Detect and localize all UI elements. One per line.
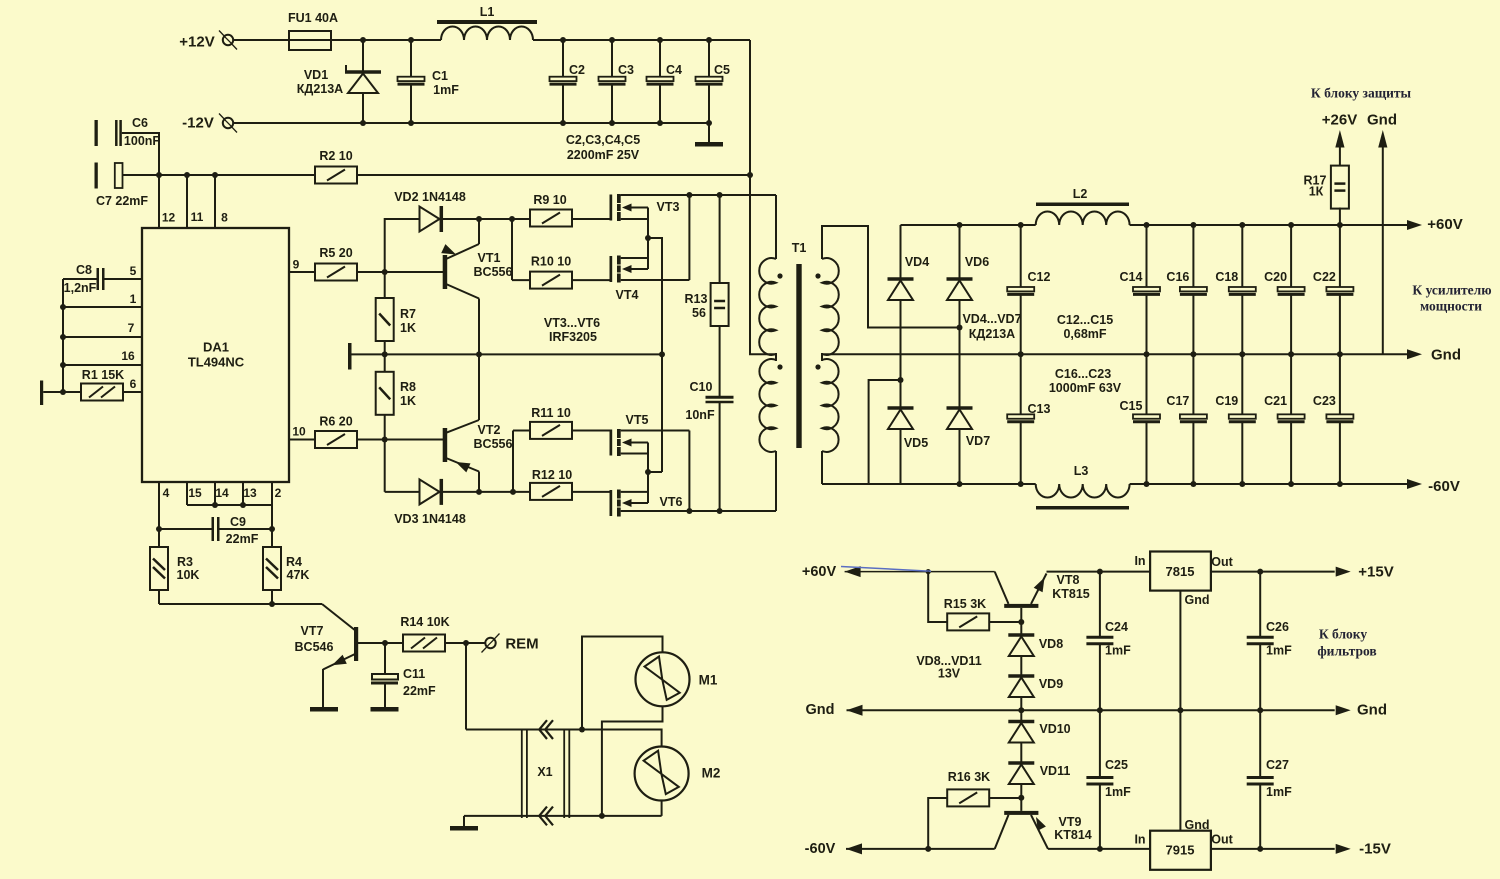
wire VT5 drain down [688, 431, 690, 512]
capacitor C4 [657, 37, 663, 43]
svg-text:13: 13 [243, 486, 257, 500]
svg-text:R5 20: R5 20 [319, 246, 352, 260]
svg-text:6: 6 [130, 377, 137, 391]
wire left bus [62, 279, 64, 392]
svg-text:C8: C8 [76, 263, 92, 277]
svg-text:2: 2 [275, 486, 282, 500]
node M1 junction [579, 727, 585, 733]
wire [233, 39, 289, 41]
svg-text:1mF: 1mF [1266, 644, 1292, 658]
svg-text:КД213А: КД213А [297, 82, 343, 96]
svg-text:VT1: VT1 [478, 251, 501, 265]
capacitor C18 [1239, 222, 1245, 228]
wire VT9 emitter row [1048, 848, 1150, 850]
wire pin 15 [186, 482, 188, 505]
connector X1 boundary lines [521, 730, 523, 819]
wire pin 7 [60, 334, 66, 340]
wire VT4 source to bus [647, 238, 649, 269]
svg-text:VT9: VT9 [1059, 815, 1082, 829]
svg-text:R7: R7 [400, 307, 416, 321]
svg-text:T1: T1 [792, 241, 807, 255]
svg-text:C12...C15: C12...C15 [1057, 313, 1113, 327]
svg-text:22mF: 22mF [403, 684, 436, 698]
svg-text:VT3: VT3 [657, 200, 680, 214]
transistor Q2 VT2 BC556 [443, 428, 448, 462]
svg-text:VD5: VD5 [904, 436, 928, 450]
svg-text:9: 9 [293, 258, 300, 272]
node -12V input terminal [219, 114, 237, 133]
svg-text:C17: C17 [1166, 394, 1189, 408]
wire drain rail bottom [621, 510, 776, 512]
svg-text:R6 20: R6 20 [319, 415, 352, 429]
svg-text:R10 10: R10 10 [531, 255, 571, 269]
resistor R5 20 [289, 271, 315, 273]
svg-text:C16: C16 [1166, 270, 1189, 284]
svg-text:C10: C10 [690, 380, 713, 394]
svg-text:7915: 7915 [1166, 843, 1195, 858]
ground at R1 [40, 381, 43, 406]
capacitor C2 [560, 37, 566, 43]
svg-text:+60V: +60V [1427, 216, 1462, 233]
svg-text:7: 7 [128, 321, 135, 335]
resistor R15 3K [928, 572, 947, 622]
resistor R2 10 [315, 167, 357, 184]
wire blue artifact [841, 567, 931, 572]
wire pin bus [187, 504, 272, 506]
wire secondary bottom lead [821, 451, 823, 484]
wire primary joint [775, 353, 777, 361]
svg-text:L3: L3 [1074, 464, 1089, 478]
node VD3 junctions [476, 489, 482, 495]
svg-text:VT3...VT6: VT3...VT6 [544, 316, 600, 330]
svg-text:1K: 1K [400, 321, 416, 335]
diode VD11 [1008, 761, 1034, 765]
svg-text:R12 10: R12 10 [532, 468, 572, 482]
wire pin 2 [271, 482, 273, 505]
svg-text:R11 10: R11 10 [531, 406, 571, 420]
wire Gnd rail [822, 353, 1409, 355]
svg-text:C25: C25 [1105, 758, 1128, 772]
svg-text:C24: C24 [1105, 620, 1128, 634]
wire secondary joint [821, 353, 823, 361]
capacitor C22 [1337, 222, 1343, 228]
svg-text:C19: C19 [1215, 394, 1238, 408]
capacitor C23 [1339, 354, 1341, 414]
svg-text:BC556: BC556 [474, 437, 513, 451]
resistor R12 10 [530, 483, 572, 500]
transistor VT4 IRF3205 [610, 256, 613, 282]
svg-text:+26V: +26V [1322, 112, 1357, 129]
node VD6 anode junction [957, 325, 963, 331]
wire pin 1 [60, 304, 66, 310]
svg-text:R14 10K: R14 10K [400, 615, 449, 629]
svg-text:+60V: +60V [802, 564, 837, 580]
svg-text:IRF3205: IRF3205 [549, 330, 597, 344]
capacitor C6 100nF [95, 120, 98, 146]
svg-text:100nF: 100nF [124, 134, 160, 148]
connector X1 chevron bottom [539, 807, 547, 826]
node VD4 VD5 junction [898, 377, 904, 383]
svg-text:VD3 1N4148: VD3 1N4148 [394, 512, 466, 526]
wire drain rail top [621, 194, 776, 196]
svg-text:VT6: VT6 [660, 495, 683, 509]
diode VD9 [1008, 674, 1034, 678]
capacitor C15 [1146, 354, 1148, 414]
svg-text:C7 22mF: C7 22mF [96, 194, 148, 208]
svg-text:C26: C26 [1266, 620, 1289, 634]
svg-text:-60V: -60V [805, 841, 836, 857]
svg-text:VT8: VT8 [1057, 573, 1080, 587]
wire pin 13 [242, 482, 244, 505]
svg-text:R8: R8 [400, 380, 416, 394]
node junction R2 rail [747, 172, 753, 178]
diode VD5 KD213A [900, 380, 902, 408]
ground at C11 [371, 707, 399, 712]
node +12V input terminal [219, 31, 237, 50]
transformer T1 primary top winding [759, 258, 776, 355]
svg-text:12: 12 [162, 211, 176, 225]
svg-text:C9: C9 [230, 515, 246, 529]
svg-text:10nF: 10nF [685, 408, 715, 422]
wire REM down [465, 643, 467, 730]
svg-text:К блоку: К блоку [1319, 627, 1367, 642]
svg-text:1: 1 [130, 292, 137, 306]
svg-text:R2 10: R2 10 [319, 149, 352, 163]
svg-text:C18: C18 [1215, 270, 1238, 284]
svg-text:C14: C14 [1120, 270, 1143, 284]
svg-text:C13: C13 [1028, 402, 1051, 416]
svg-text:Gnd: Gnd [1185, 818, 1210, 832]
resistor R10 10 [511, 219, 513, 280]
svg-text:1mF: 1mF [1266, 785, 1292, 799]
node REM junction [463, 640, 469, 646]
capacitor C9 22mF [156, 526, 162, 532]
wire midpoint down [648, 238, 662, 472]
capacitor C8 1,2nF [97, 268, 100, 290]
svg-text:1,2nF: 1,2nF [64, 281, 97, 295]
svg-text:R16 3K: R16 3K [948, 770, 990, 784]
wire -60V rail [822, 483, 1036, 485]
svg-text:M1: M1 [699, 673, 718, 688]
svg-text:DA1: DA1 [203, 340, 229, 355]
svg-text:7815: 7815 [1166, 564, 1195, 579]
svg-text:К усилителю: К усилителю [1412, 283, 1491, 298]
motor M1 [636, 652, 690, 706]
svg-text:C22: C22 [1313, 270, 1336, 284]
svg-text:C16...C23: C16...C23 [1055, 367, 1111, 381]
svg-text:In: In [1134, 833, 1145, 847]
svg-text:-60V: -60V [1428, 478, 1460, 495]
resistor R16 3K [928, 798, 947, 849]
svg-text:Gnd: Gnd [1357, 702, 1387, 719]
svg-text:REM: REM [505, 636, 538, 653]
resistor R14 10K [385, 642, 403, 644]
motor M2 [635, 747, 689, 801]
svg-text:11: 11 [191, 210, 204, 224]
svg-text:-12V: -12V [182, 115, 214, 132]
diode VD6 KD213A [957, 222, 963, 228]
resistor R3 10K [158, 529, 160, 547]
wire pin 12 [158, 175, 160, 228]
svg-text:C11: C11 [403, 667, 425, 681]
svg-text:C21: C21 [1264, 394, 1287, 408]
wire +12V rail [533, 39, 750, 41]
wire X1 top row [466, 729, 582, 731]
diode VD8 [1008, 633, 1034, 637]
capacitor C13 [1020, 354, 1022, 414]
svg-text:мощности: мощности [1420, 299, 1482, 314]
svg-text:L2: L2 [1073, 187, 1088, 201]
wire base feed [159, 603, 322, 605]
node REM terminal [466, 642, 485, 644]
svg-text:Gnd: Gnd [1431, 347, 1461, 364]
capacitor C11 22mF [384, 643, 386, 674]
capacitor C1 1mF [408, 37, 414, 43]
svg-text:Gnd: Gnd [1185, 593, 1210, 607]
svg-text:VT2: VT2 [478, 423, 501, 437]
svg-text:M2: M2 [702, 766, 721, 781]
transistor Q7 VT7 BC546 [354, 627, 358, 661]
svg-text:TL494NC: TL494NC [188, 355, 245, 370]
svg-text:VT4: VT4 [616, 288, 639, 302]
svg-text:VD7: VD7 [966, 434, 990, 448]
svg-text:56: 56 [692, 306, 706, 320]
transformer T1 secondary bottom winding [822, 359, 839, 452]
ground rail bar [348, 343, 352, 370]
svg-text:L1: L1 [480, 5, 495, 19]
svg-text:Out: Out [1211, 833, 1233, 847]
inductor L3 [1036, 506, 1129, 510]
wire pin 4 [158, 482, 160, 529]
svg-text:КД213А: КД213А [969, 327, 1015, 341]
node R7 rail junction [382, 351, 388, 357]
wire Gnd row [847, 705, 863, 716]
op-amp U1 DA1 TL494NC chip body [142, 228, 289, 482]
wire +12V feed to center tap [750, 175, 776, 354]
svg-text:In: In [1134, 554, 1145, 568]
node pin8 junction [212, 172, 218, 178]
svg-text:R4: R4 [286, 555, 302, 569]
svg-text:Gnd: Gnd [806, 702, 835, 718]
svg-text:VD4...VD7: VD4...VD7 [962, 312, 1021, 326]
svg-text:15: 15 [188, 486, 202, 500]
resistor R1 15K [60, 389, 66, 395]
svg-text:VD4: VD4 [905, 255, 929, 269]
wire secondary top lead [822, 226, 960, 328]
capacitor C21 [1290, 354, 1292, 414]
diode VD1 KD213A [362, 40, 364, 72]
wire R2 to +12 feed [357, 174, 750, 176]
svg-text:47K: 47K [287, 568, 310, 582]
resistor R4 47K [271, 529, 273, 547]
svg-text:VT5: VT5 [626, 413, 649, 427]
svg-text:1mF: 1mF [1105, 785, 1131, 799]
capacitor C27 1mF [1259, 710, 1261, 776]
svg-text:VD11: VD11 [1040, 764, 1071, 778]
svg-text:10: 10 [292, 425, 306, 439]
capacitor C7 22mF [95, 163, 98, 189]
wire +60V tap row [845, 566, 861, 577]
ground at X1 [463, 816, 465, 826]
svg-text:C27: C27 [1266, 758, 1289, 772]
svg-text:-15V: -15V [1359, 841, 1391, 858]
capacitor C24 1mF [1099, 572, 1101, 636]
svg-text:C15: C15 [1120, 399, 1143, 413]
transistor Q9 VT9 KT814 [1020, 798, 1022, 811]
wire secondary bottom jog [869, 380, 901, 484]
diode VD3 1N4148 [385, 491, 420, 493]
node pin12 junction [156, 172, 162, 178]
transformer T1 secondary top winding [822, 258, 839, 355]
svg-text:VD10: VD10 [1039, 722, 1070, 736]
wire VT3 source bus [647, 208, 649, 239]
capacitor C10 10nF [719, 326, 721, 396]
svg-text:К блоку защиты: К блоку защиты [1311, 86, 1412, 101]
capacitor C12 [1018, 222, 1024, 228]
capacitor C14 [1144, 222, 1150, 228]
svg-text:C6: C6 [132, 116, 148, 130]
wire +15V row [1211, 571, 1335, 573]
node winding phase dots [777, 273, 782, 278]
svg-text:22mF: 22mF [226, 532, 259, 546]
wire primary bottom lead [775, 451, 777, 511]
wire pin 14 [214, 482, 216, 505]
transistor VT6 IRF3205 [610, 490, 613, 516]
resistor R13 56 [717, 192, 723, 198]
resistor R7 1K [376, 298, 394, 341]
wire X1 bottom row [464, 815, 662, 817]
node collector junction [382, 640, 388, 646]
transformer T1 core [796, 264, 801, 448]
svg-text:8: 8 [221, 211, 228, 225]
transistor VT5 IRF3205 [610, 430, 613, 456]
transistor Q1 VT1 BC556 [443, 255, 448, 289]
svg-text:C20: C20 [1264, 270, 1287, 284]
svg-text:C4: C4 [666, 63, 682, 77]
resistor R17 1K [1339, 208, 1341, 226]
svg-text:R3: R3 [177, 555, 193, 569]
wire VT6 source bus [647, 472, 649, 503]
svg-text:VD6: VD6 [965, 255, 989, 269]
capacitor C16 [1190, 222, 1196, 228]
svg-text:X1: X1 [537, 765, 552, 779]
node -60V arrow [1407, 479, 1422, 489]
svg-text:C12: C12 [1028, 270, 1051, 284]
svg-text:5: 5 [130, 264, 137, 278]
inductor L2 [1036, 203, 1129, 207]
svg-text:Out: Out [1211, 555, 1233, 569]
svg-text:16: 16 [121, 349, 135, 363]
wire VT4 drain up [688, 195, 690, 280]
capacitor C17 [1192, 354, 1194, 414]
diode VD7 KD213A [947, 406, 973, 410]
svg-text:Gnd: Gnd [1367, 112, 1397, 129]
svg-text:VD2 1N4148: VD2 1N4148 [394, 190, 466, 204]
wire -60V tap row [846, 843, 862, 854]
wire -15V row [1211, 848, 1335, 850]
svg-text:1K: 1K [400, 394, 416, 408]
resistor R8 1K [376, 372, 394, 415]
wire Gnd to protection arrow [1382, 145, 1384, 354]
wire pin 8 [214, 175, 216, 228]
node Gnd arrow [1407, 349, 1422, 359]
svg-text:+15V: +15V [1358, 564, 1393, 581]
svg-text:KT814: KT814 [1054, 828, 1092, 842]
svg-text:C1: C1 [432, 69, 448, 83]
node VT9 base junction [1018, 795, 1024, 801]
svg-text:R13: R13 [685, 292, 708, 306]
svg-text:1000mF 63V: 1000mF 63V [1049, 381, 1122, 395]
resistor R9 10 [530, 210, 572, 227]
svg-text:BC556: BC556 [474, 265, 513, 279]
transistor Q8 VT8 KT815 [995, 572, 1009, 604]
ground below C5 [708, 123, 710, 142]
diode VD2 1N4148 [385, 219, 420, 298]
regulator 7815 [1150, 552, 1211, 591]
wire M2 bottom [661, 801, 663, 816]
wire primary top lead [775, 195, 777, 259]
wire [331, 39, 441, 41]
capacitor C3 [609, 37, 615, 43]
svg-text:1mF: 1mF [433, 83, 459, 97]
svg-text:C2,C3,C4,C5: C2,C3,C4,C5 [566, 133, 640, 147]
svg-text:C23: C23 [1313, 394, 1336, 408]
inductor L1 [437, 20, 537, 24]
wire M1 bottom [602, 706, 663, 816]
wire to M2 [582, 730, 662, 747]
capacitor C25 1mF [1099, 710, 1101, 776]
wire +12V feed down [749, 40, 751, 175]
svg-text:C2: C2 [569, 63, 585, 77]
svg-text:VT7: VT7 [301, 624, 324, 638]
transformer T1 primary bottom winding [759, 359, 776, 452]
svg-text:FU1 40A: FU1 40A [288, 11, 338, 25]
svg-text:C5: C5 [714, 63, 730, 77]
resistor R11 10 [512, 431, 514, 492]
svg-text:2200mF 25V: 2200mF 25V [567, 148, 640, 162]
svg-text:C3: C3 [618, 63, 634, 77]
node source bus to ground rail [659, 351, 665, 357]
svg-text:BC546: BC546 [295, 640, 334, 654]
svg-text:4: 4 [163, 486, 170, 500]
node junction [360, 37, 366, 43]
wire pin 11 [186, 175, 188, 228]
node +60V arrow [1407, 220, 1422, 230]
svg-text:R1 15K: R1 15K [82, 368, 124, 382]
wire -12V rail [233, 122, 709, 124]
svg-text:фильтров: фильтров [1317, 644, 1376, 659]
connector X1 chevron top [539, 720, 547, 739]
svg-text:KT815: KT815 [1052, 587, 1090, 601]
wire +60V rail [901, 224, 1036, 226]
svg-text:VD1: VD1 [304, 68, 328, 82]
capacitor C26 1mF [1259, 572, 1261, 636]
svg-text:+12V: +12V [179, 34, 214, 51]
ground at VT7 [310, 707, 338, 712]
wire ground rail [352, 353, 663, 355]
wire R17 to +26V arrow [1339, 145, 1341, 166]
svg-text:R15 3K: R15 3K [944, 597, 986, 611]
svg-text:10K: 10K [177, 568, 200, 582]
capacitor C5 [706, 37, 712, 43]
wire to M1 [582, 637, 663, 730]
capacitor C19 [1241, 354, 1243, 414]
transistor VT3 IRF3205 [610, 195, 613, 221]
svg-text:R9 10: R9 10 [533, 193, 566, 207]
resistor R6 20 [289, 439, 315, 441]
diode VD4 KD213A [900, 225, 902, 279]
svg-text:1mF: 1mF [1105, 644, 1131, 658]
